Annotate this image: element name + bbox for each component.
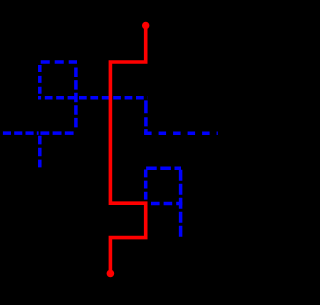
wire blue long horizontal left segment part A xyxy=(3,131,39,135)
wire blue square1 right edge vertical xyxy=(74,68,78,129)
wire blue middle horizontal xyxy=(38,96,148,100)
wire red main path xyxy=(110,26,145,274)
wire blue stub vertical below T junction xyxy=(38,136,42,168)
wire blue long horizontal left segment part B xyxy=(40,131,73,135)
wire blue square2 right edge with tail xyxy=(179,170,183,237)
wire blue square1 top edge xyxy=(41,60,77,64)
wire blue square2 left edge xyxy=(144,170,148,204)
wire blue vertical right of center xyxy=(144,100,148,133)
wire blue square2 bottom edge xyxy=(151,202,182,206)
wire blue square2 top edge xyxy=(146,166,181,170)
wire blue square1 left edge xyxy=(38,65,42,98)
node red end dot xyxy=(107,270,115,278)
node red start dot xyxy=(142,22,149,29)
wire blue long horizontal right segment xyxy=(144,132,218,136)
